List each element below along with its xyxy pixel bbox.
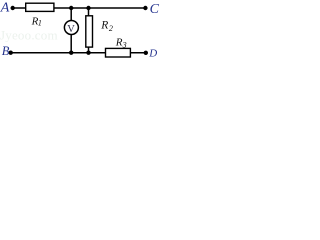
node B [9, 51, 13, 55]
svg-text:3: 3 [122, 40, 127, 49]
svg-text:R: R [115, 37, 123, 49]
wire voltmeter branch [70, 8, 72, 53]
svg-text:2: 2 [109, 24, 113, 33]
svg-text:B: B [2, 44, 10, 58]
wire bottom B to D [11, 52, 146, 54]
node A [11, 6, 15, 10]
wire top A to C [13, 7, 146, 9]
resistor R2 [86, 16, 93, 47]
svg-text:V: V [67, 24, 75, 35]
junction bottom-R2 [86, 51, 90, 55]
svg-text:C: C [150, 2, 160, 17]
voltmeter V [64, 21, 78, 35]
svg-text:Jyeoo.com: Jyeoo.com [0, 28, 58, 43]
svg-text:R: R [100, 20, 108, 32]
junction top-R2 [86, 6, 90, 10]
svg-text:1: 1 [38, 19, 42, 28]
background [0, 0, 163, 63]
node C [143, 6, 147, 10]
resistor R3 [106, 48, 131, 57]
junction bottom-V [69, 51, 73, 55]
resistor R1 [26, 3, 54, 11]
svg-text:A: A [0, 1, 10, 16]
wire R2 branch [88, 8, 90, 53]
junction top-V [69, 6, 73, 10]
node D [144, 51, 148, 55]
svg-text:D: D [148, 48, 157, 60]
